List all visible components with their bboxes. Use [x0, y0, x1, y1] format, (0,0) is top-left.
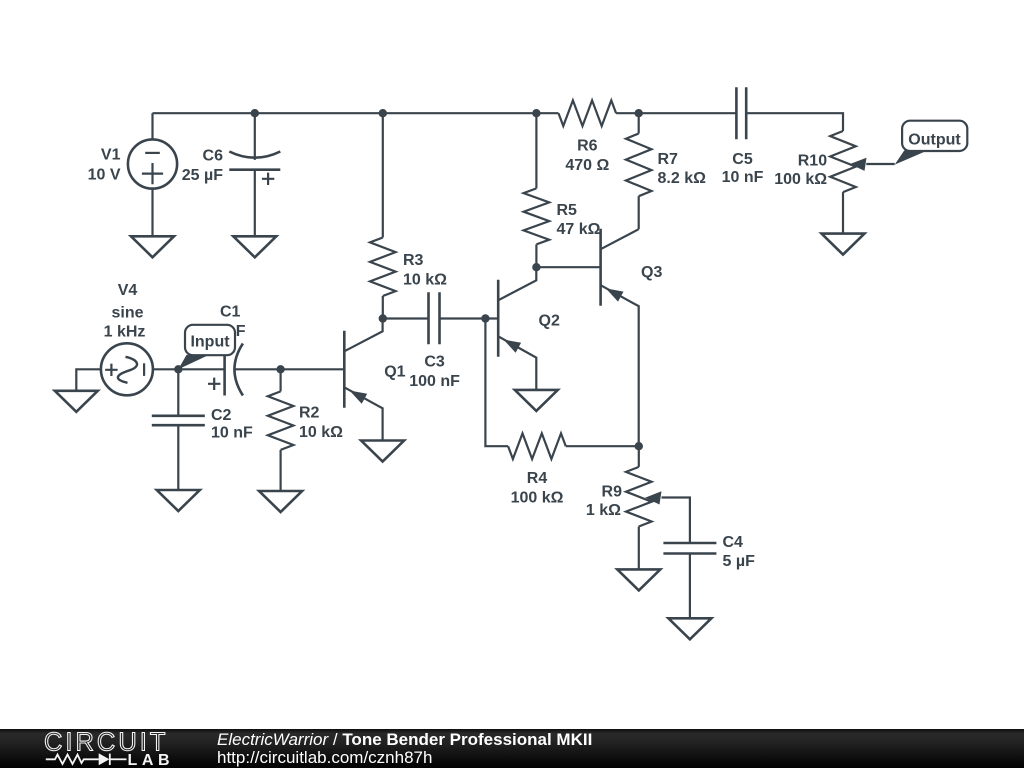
node junction top rail / R5	[532, 109, 540, 117]
voltage source V4 (sine)	[101, 343, 153, 395]
node junction input net	[174, 365, 182, 373]
svg-text:Input: Input	[190, 333, 230, 350]
ground (Q2)	[515, 390, 558, 411]
svg-text:C4: C4	[723, 534, 744, 551]
transistor Q2 (PNP)	[497, 280, 500, 357]
node junction C3 / Q2 base / R4	[481, 314, 489, 322]
wire top rail left	[153, 112, 559, 114]
node Input flag	[185, 325, 235, 355]
svg-text:C2: C2	[211, 407, 232, 424]
svg-text:1 kHz: 1 kHz	[104, 324, 146, 341]
svg-text:C6: C6	[203, 147, 224, 164]
svg-text:http://circuitlab.com/cznh87h: http://circuitlab.com/cznh87h	[217, 748, 432, 767]
input flag tail	[178, 355, 209, 369]
ground (V4)	[55, 391, 98, 412]
CircuitLab logo resistor-diode glyph	[46, 754, 127, 765]
ground (R10)	[822, 234, 865, 255]
capacitor C2	[177, 369, 179, 416]
svg-text:10 nF: 10 nF	[722, 169, 764, 186]
potentiometer R10	[830, 131, 856, 192]
ground (R2)	[259, 491, 302, 512]
svg-text:Q2: Q2	[539, 313, 560, 330]
svg-text:LAB: LAB	[128, 752, 175, 768]
node junction R2 / Q1 base	[276, 365, 284, 373]
svg-text:sine: sine	[111, 305, 143, 322]
transistor Q3 (PNP)	[599, 229, 602, 306]
svg-text:R3: R3	[403, 252, 424, 269]
svg-text:Q1: Q1	[384, 363, 405, 380]
capacitor C4	[663, 543, 716, 554]
capacitor C1 (polarized)	[223, 344, 226, 396]
resistor R7	[638, 113, 640, 133]
wire R3/Q1 node to C3	[383, 317, 429, 319]
node junction top rail / C6	[251, 109, 259, 117]
ground (V1)	[131, 236, 174, 257]
transistor Q1 (PNP)	[343, 331, 346, 408]
resistor R4	[508, 433, 566, 459]
node junction R3 / Q1 collector / C3	[379, 314, 387, 322]
svg-text:5 µF: 5 µF	[723, 553, 756, 570]
wire top rail right (C5 to R10)	[746, 113, 843, 131]
svg-text:47 kΩ: 47 kΩ	[557, 221, 601, 238]
svg-text:R2: R2	[299, 405, 320, 422]
svg-text:100 kΩ: 100 kΩ	[774, 171, 827, 188]
wire V4 to ground	[76, 369, 101, 391]
svg-text:Q3: Q3	[641, 264, 662, 281]
svg-text:C3: C3	[424, 354, 445, 371]
wire R9 wiper to C4	[662, 498, 690, 544]
ground (C4)	[668, 618, 711, 639]
wire R5 node to Q3 base	[536, 266, 600, 268]
resistor R2	[280, 369, 282, 391]
ground (R9)	[617, 569, 660, 590]
svg-text:10 nF: 10 nF	[211, 424, 253, 441]
ground (Q1)	[361, 441, 404, 462]
resistor R3	[382, 113, 384, 237]
svg-text:V1: V1	[101, 147, 121, 164]
wire R10 wiper to Output	[866, 163, 894, 165]
wire top rail middle (R6 right to C5)	[616, 112, 736, 114]
svg-text:R9: R9	[602, 484, 623, 501]
svg-text:1 kΩ: 1 kΩ	[586, 502, 621, 519]
svg-text:100 nF: 100 nF	[409, 373, 460, 390]
node junction top rail / R3	[379, 109, 387, 117]
svg-text:R10: R10	[798, 152, 827, 169]
svg-text:R4: R4	[527, 470, 548, 487]
svg-text:10 kΩ: 10 kΩ	[403, 272, 447, 289]
capacitor C3	[429, 292, 440, 344]
svg-text:Output: Output	[908, 131, 961, 148]
wire R4 to R9 node	[566, 445, 639, 447]
output flag tail	[895, 150, 928, 164]
svg-text:R7: R7	[658, 151, 679, 168]
svg-text:V4: V4	[118, 282, 138, 299]
svg-text:8.2 kΩ: 8.2 kΩ	[658, 170, 707, 187]
wire Q2 base node down to R4	[485, 319, 508, 447]
voltage source V1	[151, 113, 153, 139]
svg-text:100 kΩ: 100 kΩ	[511, 489, 564, 506]
svg-text:470 Ω: 470 Ω	[565, 157, 609, 174]
capacitor C5	[736, 87, 746, 139]
wire C3 to Q2 base	[440, 317, 499, 319]
svg-text:R5: R5	[557, 202, 578, 219]
capacitor C6 (polarized)	[254, 113, 256, 160]
svg-text:C5: C5	[732, 151, 753, 168]
svg-text:R6: R6	[577, 137, 598, 154]
ground (C6)	[233, 236, 276, 257]
ground (C2)	[157, 490, 200, 511]
svg-text:ElectricWarrior / Tone Bender: ElectricWarrior / Tone Bender Profession…	[217, 730, 592, 749]
R10 wiper arrow	[850, 158, 867, 171]
resistor R5	[535, 113, 537, 188]
svg-text:C1: C1	[220, 303, 241, 320]
R9 wiper arrow	[645, 491, 662, 504]
node Output flag	[902, 121, 967, 151]
V4 sine squiggle	[118, 357, 137, 383]
svg-text:25 µF: 25 µF	[182, 167, 223, 184]
node junction R4 / Q3 emitter / R9	[635, 442, 643, 450]
wire C1 to Q1 base	[235, 368, 344, 370]
svg-text:10 kΩ: 10 kΩ	[299, 424, 343, 441]
wire V4 to C1	[153, 368, 225, 370]
node junction R5 / Q2 collector / Q3 base	[532, 263, 540, 271]
resistor R6	[559, 100, 617, 126]
node junction top rail / R7	[635, 109, 643, 117]
svg-text:10 V: 10 V	[88, 166, 121, 183]
potentiometer R9	[638, 446, 640, 467]
